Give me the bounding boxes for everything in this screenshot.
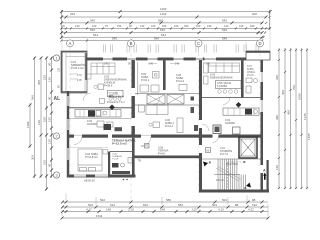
svg-text:P=12.5 m2: P=12.5 m2	[112, 142, 127, 146]
living room text left apartment	[104, 75, 127, 88]
closet line beside axis B wall	[137, 62, 139, 95]
svg-text:KUHINJA: KUHINJA	[113, 95, 124, 99]
svg-text:100: 100	[239, 24, 244, 28]
axis C wall gaps	[199, 120, 203, 153]
svg-text:P=12.1: P=12.1	[141, 78, 150, 82]
svg-text:120: 120	[48, 77, 52, 82]
svg-text:140: 140	[37, 120, 41, 125]
bottom dimension chain line 2	[62, 206, 268, 208]
svg-text:100: 100	[196, 24, 201, 28]
window glazing lines in top wall	[103, 58, 216, 59]
svg-text:A: A	[244, 186, 247, 190]
storage room inner wall lines	[66, 53, 85, 92]
marks near axis C wall	[191, 97, 199, 132]
svg-text:305: 305	[37, 80, 41, 85]
svg-text:B: B	[130, 41, 133, 46]
svg-text:DNEVNI BORAVAK: DNEVNI BORAVAK	[210, 76, 233, 80]
living room sofa right apartment	[209, 63, 240, 73]
living room sofa left apartment	[86, 63, 116, 79]
svg-text:4.22: 4.22	[248, 207, 254, 211]
window width labels under top wall	[104, 63, 211, 66]
top chains right terminator	[269, 10, 271, 30]
svg-text:90: 90	[48, 96, 52, 100]
top dimension chain line 4	[62, 27, 271, 29]
svg-text:502: 502	[222, 198, 227, 202]
right exterior wall (axis D)	[261, 60, 264, 193]
svg-text:512: 512	[110, 203, 115, 207]
svg-text:P=14.8 m2: P=14.8 m2	[85, 155, 98, 159]
svg-text:TB: TB	[138, 159, 142, 163]
svg-text:545: 545	[90, 28, 95, 32]
svg-text:546: 546	[222, 28, 227, 32]
svg-text:501: 501	[212, 203, 217, 207]
svg-text:2.51 0m: 2.51 0m	[216, 179, 225, 182]
svg-text:AL: AL	[54, 96, 61, 102]
svg-text:192: 192	[252, 203, 257, 207]
svg-text:1511: 1511	[96, 214, 103, 218]
svg-text:P=9.8: P=9.8	[158, 152, 165, 156]
svg-text:365: 365	[275, 75, 279, 80]
svg-text:120: 120	[58, 67, 61, 72]
bottom dimension chain line 3	[62, 211, 268, 213]
svg-text:AL: AL	[109, 94, 115, 99]
svg-text:1405: 1405	[307, 133, 311, 140]
top dimension chain line 5	[62, 32, 263, 34]
svg-text:148: 148	[106, 207, 111, 211]
svg-text:155: 155	[48, 117, 52, 122]
svg-text:P=15.2 m2: P=15.2 m2	[71, 66, 84, 70]
chairs ellipse right apartment	[218, 90, 238, 94]
svg-text:540: 540	[90, 18, 95, 22]
svg-text:552: 552	[178, 203, 183, 207]
bottom-left bath dark marks	[112, 163, 119, 168]
right wall window gaps	[260, 72, 263, 173]
left wall window gaps	[67, 96, 70, 160]
svg-text:700: 700	[292, 85, 296, 90]
svg-text:88: 88	[235, 203, 239, 207]
main top exterior wall	[86, 58, 246, 61]
svg-text:2.05: 2.05	[77, 79, 82, 82]
svg-text:P=4.9: P=4.9	[113, 159, 120, 161]
svg-text:140: 140	[75, 24, 80, 28]
svg-text:100: 100	[151, 24, 156, 28]
bedroom1 mid apartment text	[141, 72, 150, 82]
svg-text:HODNIK: HODNIK	[87, 122, 97, 126]
bedroom bottom-left bed	[78, 149, 102, 171]
storage room top-left outline	[61, 51, 87, 93]
row grid marker circle 2	[53, 133, 59, 139]
shaft with X mid	[135, 94, 199, 106]
svg-text:160: 160	[275, 165, 279, 170]
svg-text:03: 03	[206, 149, 210, 153]
svg-text:HODNIK: HODNIK	[225, 121, 235, 125]
svg-text:110: 110	[192, 207, 197, 211]
svg-text:2: 2	[55, 134, 57, 138]
hall small boxes	[97, 121, 113, 127]
svg-text:380: 380	[275, 115, 279, 120]
terrace edge wall	[132, 156, 202, 159]
top wall window gaps	[103, 57, 216, 61]
left dimension numbers (rotated)	[26, 62, 52, 167]
svg-text:C: C	[197, 41, 200, 46]
svg-text:2.10: 2.10	[128, 207, 134, 211]
corridor wall right apartment	[202, 97, 262, 99]
section arrow upper	[203, 161, 212, 167]
svg-text:1: 1	[55, 56, 57, 60]
right kitchen appliances dark	[245, 109, 252, 115]
left dining table with chairs	[108, 90, 124, 100]
section arrow lower	[244, 183, 251, 191]
storage room right hatched wall	[85, 53, 87, 80]
svg-text:502: 502	[88, 203, 93, 207]
top-right balcony box	[246, 51, 270, 60]
svg-text:140: 140	[140, 24, 145, 28]
bottom wall left section (axis 3)	[67, 175, 136, 178]
svg-text:545: 545	[222, 18, 227, 22]
svg-text:200: 200	[184, 24, 189, 28]
svg-text:150: 150	[117, 24, 122, 28]
mid bedroom text	[165, 119, 175, 128]
svg-text:P=17.6: P=17.6	[220, 153, 229, 156]
stair block bottom wall	[199, 190, 269, 193]
svg-text:200: 200	[252, 12, 257, 16]
dining table right apartment	[216, 81, 242, 89]
bottom wall window gaps	[74, 174, 109, 178]
svg-text:Pvisina=2.71 m: Pvisina=2.71 m	[107, 100, 125, 104]
bathroom right apartment text	[247, 65, 255, 77]
svg-text:D: D	[258, 41, 261, 46]
grid marker circle D	[257, 40, 264, 47]
bottom-left bath fixtures	[113, 154, 123, 161]
stairwell landing text	[220, 147, 233, 156]
top-right balcony hatched band	[246, 51, 270, 53]
svg-text:400: 400	[281, 90, 285, 95]
svg-text:450: 450	[287, 110, 291, 115]
right kitchen counter	[223, 108, 259, 115]
row grid marker circle 1	[53, 55, 59, 61]
grid marker circle A	[67, 40, 74, 47]
svg-text:60: 60	[48, 163, 52, 167]
svg-text:150: 150	[43, 75, 47, 80]
storage small dims	[77, 74, 82, 82]
svg-text:1080: 1080	[298, 93, 302, 100]
middle wall thin lines across gaps	[74, 134, 151, 136]
right hall text	[225, 118, 235, 125]
svg-text:586: 586	[166, 198, 171, 202]
bath wall bottom-left apartment	[108, 152, 110, 178]
bedroom bottom-left ceiling line	[70, 147, 109, 149]
right dimension numbers (rotated)	[275, 75, 311, 170]
svg-text:4.17: 4.17	[86, 207, 92, 211]
storage room bottom wall	[61, 91, 87, 93]
living room text right apartment	[210, 73, 233, 80]
top dimension chain line 6	[62, 36, 263, 38]
right bathroom fixtures	[246, 78, 258, 93]
stair block left wall (axis C)	[199, 60, 202, 193]
mid bedroom table	[149, 122, 160, 127]
bedroom2 mid apartment text	[176, 73, 185, 83]
window extent extension ticks above wall	[104, 45, 259, 53]
svg-text:STOL 90x190: STOL 90x190	[217, 83, 232, 85]
stair walk line arrow	[228, 162, 244, 188]
svg-text:3: 3	[55, 173, 57, 177]
row grid marker circle 3	[53, 172, 59, 178]
storage inner ticks	[70, 74, 78, 79]
corridor mid fixtures	[140, 85, 187, 93]
apartment separation wall (axis B)	[132, 60, 135, 135]
mid bedroom bed	[138, 105, 168, 115]
door swing arcs	[74, 93, 230, 147]
extension lines from chains to building	[62, 13, 270, 56]
left shaft diamond	[109, 105, 115, 111]
svg-text:544: 544	[161, 33, 166, 37]
small box marker mid bottom	[145, 144, 150, 149]
top dimension chain line 7	[62, 40, 263, 42]
bottom dimension chain line 1	[62, 201, 268, 203]
svg-text:546: 546	[31, 95, 35, 100]
middle wall door gaps	[74, 134, 219, 138]
svg-text:2.70: 2.70	[77, 74, 82, 77]
svg-text:1180: 1180	[26, 121, 30, 128]
svg-text:304: 304	[31, 155, 35, 160]
bedroom bottom-left text	[85, 152, 98, 159]
bedroom1 wardrobe	[153, 72, 160, 79]
svg-text:P=28.6: P=28.6	[104, 84, 113, 88]
svg-text:A: A	[209, 161, 212, 165]
bottom dimension chain line 4	[62, 217, 268, 219]
section marker right A	[263, 169, 266, 180]
storage room left hatched wall	[61, 51, 63, 93]
left kitchen appliances dark	[88, 110, 95, 116]
grid marker circle C	[195, 40, 202, 47]
left small cabinet	[99, 98, 104, 103]
left apartment hall text	[87, 92, 125, 127]
grid axis dashed lines	[70, 47, 260, 201]
left exterior wall (axis A)	[67, 91, 69, 178]
svg-text:1102: 1102	[160, 12, 167, 16]
left small table	[94, 84, 104, 90]
window labels beside storage wall	[58, 67, 61, 88]
svg-text:98: 98	[252, 198, 256, 202]
svg-text:546: 546	[154, 37, 159, 41]
right shaft diamond	[236, 102, 242, 108]
terrace room text mid bottom	[158, 146, 169, 156]
grid marker circle B	[128, 40, 135, 47]
svg-text:A: A	[69, 41, 72, 46]
top dimension chain line 1	[62, 11, 271, 13]
svg-text:140: 140	[149, 63, 154, 66]
bottom-left interior room wall	[110, 151, 132, 153]
bottom extension lines	[62, 194, 268, 217]
right hall dark fixture	[213, 125, 221, 134]
stair rail mid line	[216, 168, 239, 181]
svg-text:P=4.6: P=4.6	[247, 74, 254, 77]
axis B wall lower part	[132, 138, 135, 175]
kitchen front edge line	[69, 118, 132, 120]
svg-text:1345: 1345	[303, 113, 307, 120]
right dimension chain lines	[279, 48, 307, 189]
bedroom2 bed	[148, 63, 180, 65]
svg-text:60: 60	[48, 62, 52, 66]
svg-text:18x17.5/28: 18x17.5/28	[226, 163, 239, 166]
svg-text:502: 502	[100, 198, 105, 202]
svg-text:293: 293	[70, 12, 75, 16]
left dimension chain lines	[30, 57, 52, 190]
svg-text:545: 545	[112, 37, 117, 41]
svg-text:120: 120	[48, 139, 52, 144]
left wall window glazing	[67, 96, 69, 160]
svg-text:AB 00.05: AB 00.05	[84, 179, 95, 183]
svg-text:810: 810	[143, 203, 148, 207]
svg-text:210: 210	[43, 160, 47, 165]
stair treads	[202, 159, 261, 190]
svg-text:100: 100	[174, 24, 179, 28]
left kitchen counter	[75, 110, 121, 118]
stairwell room label box	[206, 148, 211, 153]
storage room top hatched wall	[61, 51, 87, 53]
mid bedroom wardrobe	[177, 118, 183, 133]
svg-text:148: 148	[160, 207, 165, 211]
svg-text:P=11.4: P=11.4	[176, 79, 185, 83]
top chains left terminator	[61, 10, 63, 39]
red terrace text	[112, 139, 136, 146]
svg-text:1100: 1100	[160, 7, 167, 11]
bathroom wall right apartment	[241, 60, 244, 97]
svg-text:P=10.4: P=10.4	[165, 125, 174, 128]
bedroom separation wall upper	[163, 60, 166, 90]
elevator shaft with X	[239, 137, 257, 158]
svg-text:6 OSOBA: 6 OSOBA	[217, 85, 228, 88]
left hall dark fixtures	[104, 124, 112, 130]
svg-text:100: 100	[43, 117, 47, 122]
svg-text:180: 180	[250, 24, 255, 28]
bedroom nightstand	[103, 150, 108, 155]
storage room text	[71, 60, 86, 70]
axis B wall gaps	[131, 88, 135, 126]
svg-text:545: 545	[222, 37, 227, 41]
svg-text:560: 560	[158, 18, 163, 22]
right outer strip wall	[267, 160, 269, 190]
svg-text:A: A	[263, 169, 266, 173]
top dimension chain line 3	[62, 22, 263, 24]
svg-text:240: 240	[207, 24, 212, 28]
svg-text:140: 140	[175, 63, 180, 66]
duct strip along axis C	[204, 63, 209, 84]
svg-text:4.10: 4.10	[218, 207, 224, 211]
svg-text:546: 546	[160, 28, 165, 32]
kitchen wall left apartment	[69, 107, 132, 109]
top dimension chain line 2	[62, 16, 267, 18]
svg-text:544: 544	[93, 33, 98, 37]
middle horizontal wall (axis 2)	[67, 135, 263, 138]
